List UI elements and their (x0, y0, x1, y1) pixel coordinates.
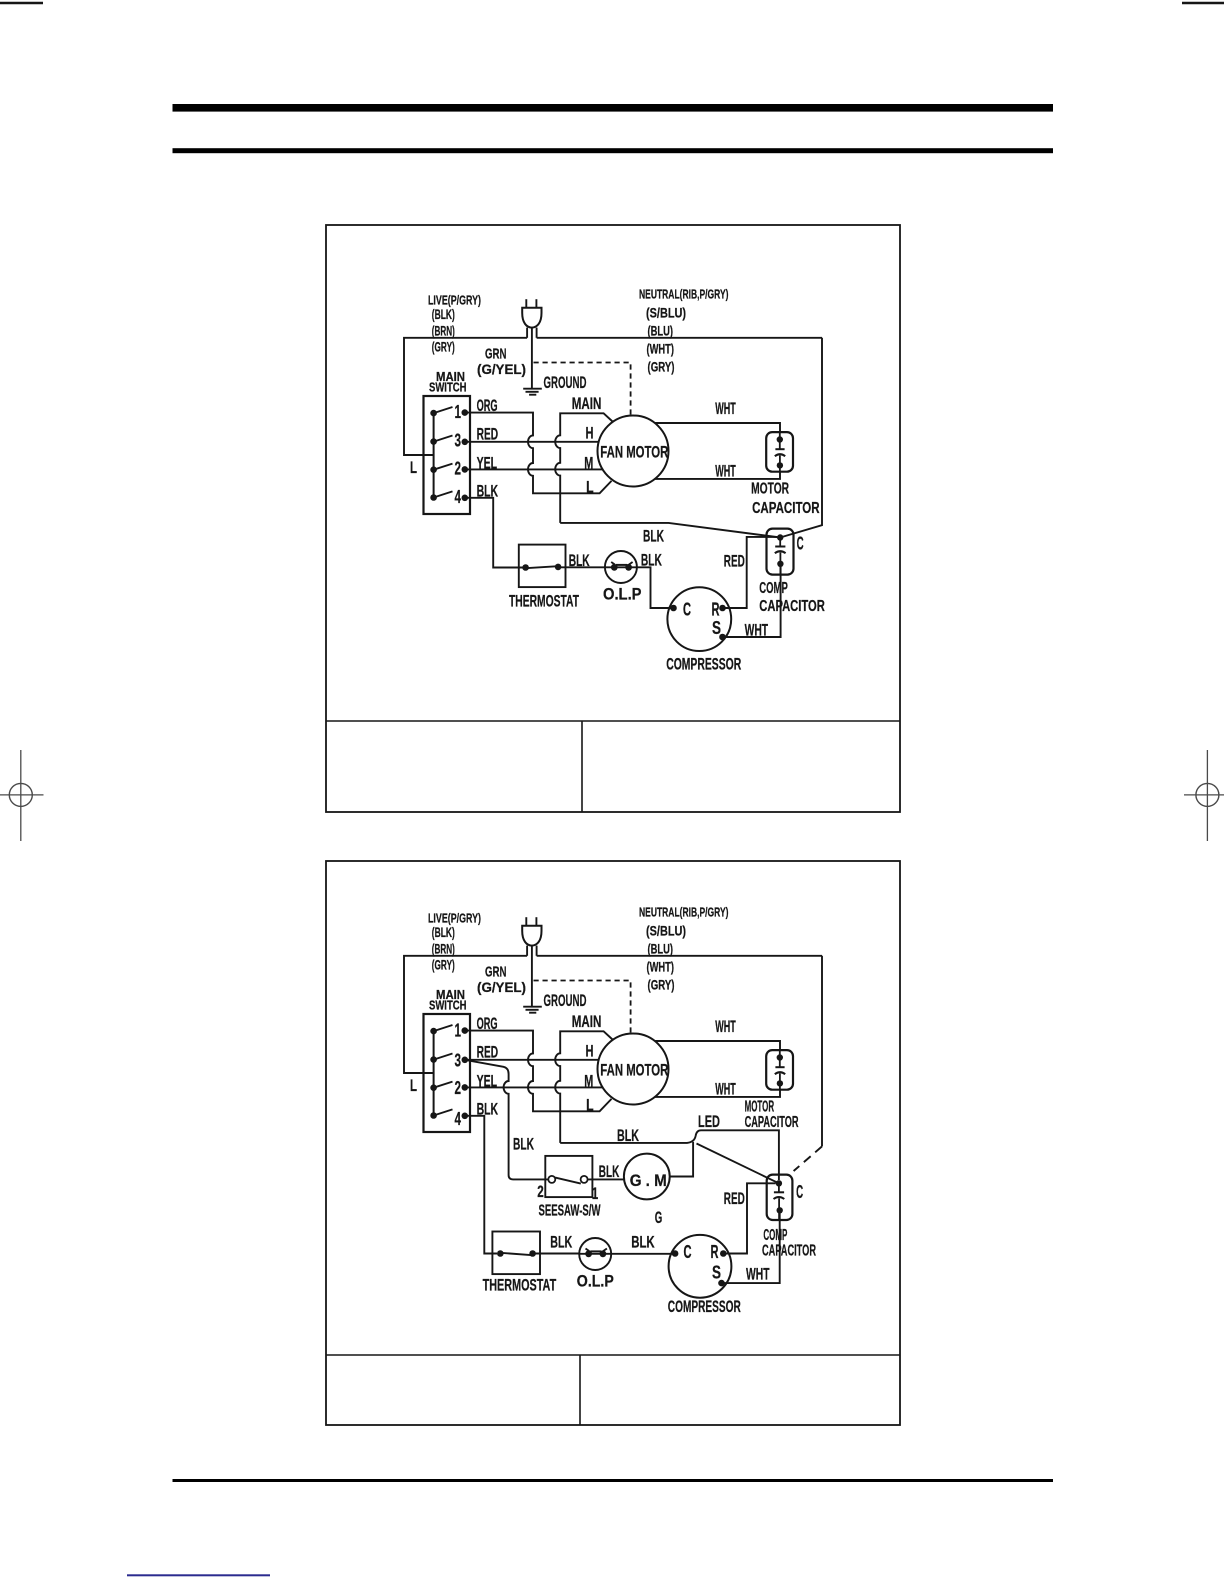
svg-text:NEUTRAL(RIB,P/GRY): NEUTRAL(RIB,P/GRY) (639, 287, 729, 302)
fan motor M2 (598, 1034, 669, 1105)
motor capacitor C1 (766, 432, 793, 472)
wire neutral top right (537, 337, 822, 339)
svg-text:G . M: G . M (630, 1171, 667, 1190)
svg-text:WHT: WHT (715, 1017, 736, 1036)
thermostat TH2 (492, 1232, 540, 1275)
svg-text:C: C (796, 1182, 803, 1202)
svg-text:MOTOR: MOTOR (751, 481, 789, 498)
svg-text:(WHT): (WHT) (647, 342, 675, 357)
svg-text:4: 4 (454, 486, 461, 507)
left registration mark (0, 750, 44, 841)
svg-text:(S/BLU): (S/BLU) (646, 306, 686, 321)
fan MAIN lead with crossover hops (555, 413, 612, 523)
svg-text:L: L (586, 1096, 594, 1115)
svg-text:(G/YEL): (G/YEL) (477, 980, 526, 995)
wire fan to motor capacitor WHT top (655, 1041, 780, 1050)
svg-text:COMP: COMP (759, 580, 788, 597)
title bar thin (173, 148, 1054, 153)
wire compressor S to comp capacitor WHT 2 (722, 1214, 780, 1284)
svg-text:(WHT): (WHT) (647, 960, 675, 975)
wire neutral right bus (780, 338, 822, 538)
svg-text:RED: RED (724, 1189, 745, 1208)
wire fan MAIN BLK to LED node (560, 1130, 701, 1143)
svg-text:BLK: BLK (569, 551, 590, 570)
top-right crop mark (1182, 2, 1224, 4)
motor capacitor C3 (766, 1050, 793, 1090)
svg-text:2: 2 (454, 1077, 461, 1098)
svg-text:(BLK): (BLK) (432, 307, 455, 322)
svg-text:2: 2 (537, 1182, 544, 1201)
wire OLP to compressor C (637, 567, 671, 608)
svg-text:S: S (712, 618, 721, 638)
fan MAIN lead with crossover hops (555, 1031, 612, 1143)
svg-text:R: R (712, 600, 720, 620)
overload protector OLP1 (605, 551, 637, 583)
svg-text:RED: RED (724, 552, 745, 571)
wire compressor S to comp capacitor WHT (723, 567, 781, 637)
svg-text:(BLU): (BLU) (648, 324, 674, 339)
svg-text:C: C (684, 1242, 692, 1262)
svg-text:L: L (410, 1077, 417, 1095)
compressor CM2 (669, 1235, 732, 1298)
seesaw switch SW2 (545, 1156, 592, 1197)
svg-text:CAPACITOR: CAPACITOR (745, 1114, 799, 1131)
svg-text:WHT: WHT (715, 399, 736, 418)
wire BLK switch4 to thermostat 2 (465, 1116, 497, 1254)
svg-text:M: M (584, 1071, 593, 1090)
wire compressor R to comp capacitor RED (723, 537, 778, 608)
wire RED to fan H (465, 441, 599, 443)
svg-text:SWITCH: SWITCH (429, 998, 467, 1013)
wire YEL to fan M (465, 1086, 603, 1088)
comp capacitor C2 (767, 529, 794, 575)
svg-text:1: 1 (592, 1184, 599, 1203)
compressor CM1 (667, 587, 731, 651)
diagram 2 frame (326, 861, 900, 1425)
ground symbol (523, 1007, 542, 1013)
svg-text:BLK: BLK (617, 1126, 639, 1145)
svg-text:FAN MOTOR: FAN MOTOR (600, 1060, 668, 1079)
svg-text:L: L (586, 478, 594, 497)
svg-text:(GRY): (GRY) (648, 978, 675, 993)
svg-text:2: 2 (454, 457, 461, 478)
svg-text:1: 1 (454, 401, 461, 422)
svg-text:3: 3 (454, 1049, 461, 1070)
svg-text:SWITCH: SWITCH (429, 380, 467, 395)
wire seesaw to guide motor BLK (588, 1178, 624, 1180)
svg-text:O.L.P: O.L.P (603, 586, 642, 604)
wire LED to comp capacitor (701, 1130, 779, 1180)
power plug P1 (522, 299, 541, 338)
ground symbol (523, 389, 542, 395)
wire fan to motor capacitor WHT top (655, 423, 780, 432)
main switch SW1 (424, 1014, 471, 1132)
wire RED switch3 to seesaw switch (465, 1060, 549, 1180)
title bar thick (173, 104, 1054, 112)
svg-text:S: S (712, 1263, 721, 1283)
svg-text:M: M (584, 453, 593, 472)
power plug P2 (522, 917, 541, 956)
wire YEL to fan M (465, 468, 603, 470)
comp capacitor C4 (767, 1175, 793, 1220)
svg-text:H: H (586, 1042, 594, 1061)
svg-text:(BLK): (BLK) (432, 925, 455, 940)
svg-text:C: C (683, 600, 691, 620)
bottom-left blue underline (127, 1574, 270, 1576)
svg-text:GRN: GRN (485, 965, 507, 981)
svg-text:1: 1 (454, 1020, 461, 1041)
dashed wire to comp capacitor (794, 1146, 822, 1171)
svg-text:R: R (711, 1242, 719, 1262)
wire ORG to fan L with crossover hops (465, 1031, 612, 1112)
svg-text:THERMOSTAT: THERMOSTAT (509, 593, 579, 611)
guide motor GM (624, 1154, 670, 1200)
svg-text:COMPRESSOR: COMPRESSOR (666, 656, 741, 674)
svg-text:CAPACITOR: CAPACITOR (752, 500, 820, 517)
svg-text:LIVE(P/GRY): LIVE(P/GRY) (428, 293, 481, 308)
ground cord wire (531, 947, 533, 1007)
svg-text:COMPRESSOR: COMPRESSOR (668, 1298, 741, 1316)
wire guide motor to LED node (670, 1142, 693, 1177)
svg-text:(BRN): (BRN) (432, 324, 455, 339)
svg-text:GROUND: GROUND (544, 373, 587, 392)
wire thermostat to OLP BLK (558, 566, 605, 568)
wire neutral right bus (821, 956, 823, 1147)
svg-text:3: 3 (454, 430, 461, 451)
svg-text:(S/BLU): (S/BLU) (646, 924, 686, 939)
svg-text:COMP: COMP (763, 1227, 787, 1244)
svg-text:WHT: WHT (745, 621, 769, 640)
svg-text:C: C (797, 534, 804, 554)
ground cord wire (531, 329, 533, 389)
svg-text:MAIN: MAIN (572, 1013, 602, 1031)
wire compressor R to comp capacitor RED 2 (723, 1183, 775, 1253)
wire BLK switch4 to thermostat (465, 498, 500, 568)
wire live top left (404, 956, 527, 1073)
svg-text:H: H (586, 424, 594, 443)
svg-text:WHT: WHT (746, 1265, 770, 1284)
svg-text:CAPACITOR: CAPACITOR (759, 598, 825, 615)
svg-text:GRN: GRN (485, 347, 507, 363)
svg-text:O.L.P: O.L.P (577, 1272, 614, 1290)
wire ORG to fan L with crossover hops (465, 413, 612, 494)
fan motor M1 (598, 416, 669, 487)
svg-text:BLK: BLK (643, 527, 664, 546)
wire neutral top right (537, 955, 822, 957)
svg-text:BLK: BLK (631, 1233, 655, 1252)
svg-text:(BRN): (BRN) (432, 942, 455, 957)
svg-text:(GRY): (GRY) (648, 360, 675, 375)
svg-text:4: 4 (454, 1108, 461, 1129)
svg-text:BLK: BLK (513, 1135, 534, 1154)
svg-text:L: L (410, 459, 417, 477)
svg-text:RED: RED (477, 425, 499, 444)
svg-text:FAN MOTOR: FAN MOTOR (600, 442, 668, 461)
svg-text:RED: RED (477, 1043, 499, 1062)
wire live top left (404, 338, 527, 455)
svg-text:LIVE(P/GRY): LIVE(P/GRY) (428, 911, 481, 926)
wire fan to motor capacitor WHT bottom (655, 1090, 780, 1097)
wire fan MAIN to comp capacitor BLK (560, 523, 780, 538)
svg-text:CAPACITOR: CAPACITOR (762, 1243, 816, 1260)
svg-text:G: G (655, 1208, 663, 1227)
svg-text:(G/YEL): (G/YEL) (477, 362, 526, 377)
svg-text:BLK: BLK (599, 1162, 620, 1181)
main switch SW1 (424, 396, 471, 514)
svg-text:SEESAW-S/W: SEESAW-S/W (539, 1203, 602, 1220)
dashed ground trace to fan motor (534, 981, 631, 1033)
svg-text:BLK: BLK (550, 1233, 572, 1252)
svg-text:LED: LED (698, 1112, 720, 1131)
svg-text:MAIN: MAIN (572, 395, 602, 413)
thermostat TH1 (497, 545, 565, 588)
overload protector OLP2 (579, 1238, 611, 1270)
svg-text:(GRY): (GRY) (432, 340, 455, 355)
svg-text:WHT: WHT (715, 1079, 736, 1098)
wire OLP to compressor C 2 (611, 1253, 672, 1255)
right registration mark (1184, 750, 1224, 841)
svg-text:THERMOSTAT: THERMOSTAT (483, 1277, 557, 1295)
svg-text:WHT: WHT (715, 461, 736, 480)
wire LED node diagonal to comp capacitor (697, 1144, 779, 1184)
svg-text:(GRY): (GRY) (432, 958, 455, 973)
top-left crop mark (0, 2, 43, 4)
wire RED to fan H (465, 1059, 599, 1061)
diagram 1 frame (326, 225, 900, 812)
svg-text:(BLU): (BLU) (648, 942, 674, 957)
svg-text:GROUND: GROUND (544, 991, 587, 1010)
dashed ground trace to fan motor (534, 363, 631, 415)
svg-text:NEUTRAL(RIB,P/GRY): NEUTRAL(RIB,P/GRY) (639, 905, 729, 920)
bottom rule (173, 1479, 1054, 1482)
wire thermostat to OLP BLK 2 (533, 1253, 580, 1255)
wire fan to motor capacitor WHT bottom (655, 472, 780, 479)
